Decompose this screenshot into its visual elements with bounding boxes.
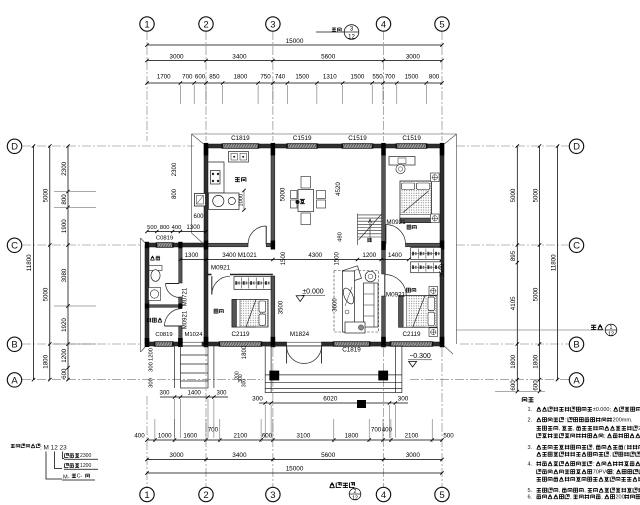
porch column left xyxy=(269,371,279,381)
eave corner diagonal left-mid xyxy=(192,233,207,246)
eave corner diagonal top-left xyxy=(192,134,207,146)
svg-text:600: 600 xyxy=(193,214,204,220)
svg-text:C1819: C1819 xyxy=(342,346,361,353)
extension stubs side steps and porch xyxy=(174,399,176,438)
svg-text:C2119: C2119 xyxy=(231,331,250,338)
window C1519 north dining R xyxy=(343,144,373,149)
side steps xyxy=(175,346,214,388)
grid line 5 xyxy=(441,31,443,141)
svg-text:4: 4 xyxy=(381,19,386,30)
rain pipe detail mark 1/12 xyxy=(456,329,604,331)
svg-text:M1824: M1824 xyxy=(290,331,310,338)
eave outline main house xyxy=(141,134,457,354)
svg-text:A: A xyxy=(573,375,580,386)
bedroom SW wardrobe xyxy=(234,277,271,290)
svg-text:1: 1 xyxy=(144,490,149,501)
dim col right 5000/5000/1800/600 xyxy=(539,146,541,392)
window C2119 south right xyxy=(391,342,432,347)
svg-text:1500: 1500 xyxy=(351,74,365,81)
svg-text:D: D xyxy=(11,142,18,153)
svg-text:3000: 3000 xyxy=(406,54,421,61)
grid bubble 4 bottom xyxy=(376,487,390,501)
grid line A xyxy=(22,379,263,381)
svg-text:C1519: C1519 xyxy=(293,135,312,142)
dim row top details xyxy=(147,82,442,84)
dim col left 11800 xyxy=(33,146,35,380)
svg-text:C: C xyxy=(11,241,18,252)
toilet xyxy=(149,266,162,271)
svg-text:4105: 4105 xyxy=(510,296,517,310)
grid bubble 5 bottom xyxy=(435,487,449,501)
svg-text:C0819: C0819 xyxy=(156,236,173,242)
wall corridor east x=180.4 xyxy=(179,245,182,283)
svg-text:2: 2 xyxy=(203,19,208,30)
wall annex partition y=306 xyxy=(147,305,180,308)
window C0819 annex north xyxy=(157,243,173,248)
svg-text:500: 500 xyxy=(443,433,454,440)
svg-text:400: 400 xyxy=(172,225,182,231)
svg-text:3080: 3080 xyxy=(61,268,68,282)
wall grid3 x=272.9 bedroom/living xyxy=(271,276,275,344)
stair label up xyxy=(367,238,372,242)
svg-text:C2119: C2119 xyxy=(402,331,421,338)
svg-text:12: 12 xyxy=(348,35,355,41)
sofa side table lamp xyxy=(365,271,376,282)
partition bedroom SW north y=274.5 xyxy=(206,274,212,276)
svg-text:1300: 1300 xyxy=(186,224,200,231)
grid bubble A left xyxy=(7,373,21,387)
bedroom NE desk xyxy=(389,157,415,166)
wall kitchen south y=245 xyxy=(206,243,248,247)
svg-text:11800: 11800 xyxy=(550,254,557,271)
porch outline and steps xyxy=(265,346,402,393)
svg-text:1: 1 xyxy=(610,325,613,331)
wall bedroom NE south y=245 xyxy=(384,243,386,247)
svg-text:700: 700 xyxy=(371,427,382,434)
svg-text:11800: 11800 xyxy=(26,254,33,271)
svg-text:C1519: C1519 xyxy=(348,135,367,142)
svg-text:5000: 5000 xyxy=(43,188,50,202)
door M0921 bedroom SE arc xyxy=(385,275,407,297)
svg-text:5000: 5000 xyxy=(43,287,50,301)
svg-text:3: 3 xyxy=(270,490,275,501)
kitchen west counter xyxy=(208,162,224,193)
svg-text:800: 800 xyxy=(61,194,68,205)
room label bedroom SE xyxy=(407,288,411,292)
window C1819 south xyxy=(334,342,369,347)
grid bubble C right xyxy=(569,238,583,252)
svg-text:300: 300 xyxy=(159,391,170,397)
svg-text:M0921: M0921 xyxy=(211,264,231,271)
wall grid4 x=383.5 upper xyxy=(382,146,386,245)
door M1824 threshold xyxy=(287,341,322,343)
kitchen sink counter xyxy=(209,193,240,210)
svg-text:15000: 15000 xyxy=(286,466,304,473)
svg-text:5: 5 xyxy=(439,490,444,501)
grid bubble 3 top xyxy=(266,17,280,31)
grid bubble B right xyxy=(569,337,583,351)
grid bubble 2 bottom xyxy=(199,487,213,501)
bedroom NE bed xyxy=(400,181,432,223)
grid bubble 4 top xyxy=(376,17,390,31)
svg-text:3000: 3000 xyxy=(169,452,184,459)
dim row bottom details xyxy=(147,439,442,441)
eave corner diagonal bottom-right xyxy=(442,344,453,354)
room label bedroom NE xyxy=(407,225,411,229)
grid bubble D right xyxy=(569,139,583,153)
svg-text:2100: 2100 xyxy=(234,433,248,440)
dining table xyxy=(298,190,314,212)
svg-text:1900: 1900 xyxy=(61,219,68,233)
dining chairs xyxy=(301,177,311,189)
svg-text:1500: 1500 xyxy=(281,251,287,265)
grid line 4 xyxy=(383,31,385,141)
svg-text:1800: 1800 xyxy=(345,433,359,440)
svg-text:1.: 1. xyxy=(528,407,533,413)
bedroom SE bed xyxy=(399,296,437,328)
grid line B xyxy=(22,343,140,345)
svg-text:300: 300 xyxy=(242,379,248,388)
svg-text:3400 M1021: 3400 M1021 xyxy=(222,252,257,259)
svg-text:400: 400 xyxy=(134,433,145,440)
svg-text:6.: 6. xyxy=(528,494,533,500)
svg-text:1500: 1500 xyxy=(295,74,309,81)
dim row bottom 15000 xyxy=(147,472,442,474)
svg-text:740: 740 xyxy=(275,74,286,81)
outdoor steps detail mark 2/12 xyxy=(330,482,335,487)
canopy detail mark 3/12 xyxy=(316,31,344,33)
svg-text:C-: C- xyxy=(77,473,83,479)
svg-text:1: 1 xyxy=(144,19,149,30)
svg-text:3.: 3. xyxy=(528,445,533,451)
dim row top 15000 xyxy=(147,44,442,46)
dim col left details xyxy=(67,146,69,380)
column below porch xyxy=(357,400,366,408)
kitchen stove counter xyxy=(229,152,249,163)
svg-text:1800: 1800 xyxy=(43,354,50,368)
svg-text:300: 300 xyxy=(252,396,263,403)
svg-text:C0819: C0819 xyxy=(155,332,172,338)
svg-text:1200: 1200 xyxy=(61,348,68,362)
chaise with figure xyxy=(343,271,355,332)
wall east x=442 xyxy=(440,146,444,344)
room label bathroom xyxy=(151,256,155,260)
svg-text:300: 300 xyxy=(148,362,154,372)
svg-text:800: 800 xyxy=(160,225,170,231)
room label kitchen xyxy=(235,177,240,182)
svg-text:±0.000: ±0.000 xyxy=(302,289,323,296)
svg-text:300: 300 xyxy=(216,391,227,397)
svg-text:800: 800 xyxy=(429,74,440,81)
svg-text:480: 480 xyxy=(338,232,344,242)
window C1519 north dining L xyxy=(287,144,317,149)
wall south B xyxy=(147,342,155,346)
svg-text:1000: 1000 xyxy=(239,194,245,207)
notes block xyxy=(522,398,527,402)
grid bubble 1 top xyxy=(140,17,154,31)
porch column right xyxy=(378,371,388,381)
svg-text:6020: 6020 xyxy=(323,396,338,403)
door M0921 bedroom SW arc xyxy=(212,276,230,294)
dim row top 3000/3400/5600/3000 xyxy=(147,60,442,62)
door M0921 bedroom NE arc xyxy=(386,225,406,245)
svg-text:1800: 1800 xyxy=(510,354,517,368)
svg-text:600: 600 xyxy=(195,74,206,81)
wash basin xyxy=(149,288,161,301)
svg-text:2300: 2300 xyxy=(61,161,68,175)
svg-text:850: 850 xyxy=(209,74,220,81)
svg-text:700: 700 xyxy=(208,427,219,434)
grid line 3 xyxy=(272,31,274,141)
svg-text:600: 600 xyxy=(510,380,517,391)
svg-text:B: B xyxy=(573,340,579,351)
grid bubble 1 bottom xyxy=(140,487,154,501)
grid bubble 5 top xyxy=(435,17,449,31)
grid bubble C left xyxy=(7,238,21,252)
svg-text:3: 3 xyxy=(270,19,275,30)
svg-text:700: 700 xyxy=(182,74,193,81)
svg-text:12: 12 xyxy=(608,332,614,338)
dim extension stubs bottom xyxy=(154,419,156,442)
kitchen flue xyxy=(195,194,206,207)
svg-text:1300: 1300 xyxy=(185,252,199,259)
room label dining xyxy=(296,200,300,204)
svg-text:1800: 1800 xyxy=(242,345,248,359)
svg-text:1200: 1200 xyxy=(362,252,376,259)
dim row bottom 3000/3400/5600/3000 xyxy=(147,459,442,461)
svg-text:1310: 1310 xyxy=(323,74,337,81)
window C0819 south annex xyxy=(155,342,173,347)
svg-text:2.: 2. xyxy=(528,417,533,423)
svg-text:5000: 5000 xyxy=(532,287,539,301)
svg-text:M0921: M0921 xyxy=(183,310,189,329)
svg-text:5600: 5600 xyxy=(321,54,336,61)
dim col left 5000/5000/1800 xyxy=(49,146,51,380)
grid line D xyxy=(22,145,194,147)
svg-text:200: 200 xyxy=(616,494,625,500)
structural columns xyxy=(204,143,208,156)
svg-text:4: 4 xyxy=(381,490,386,501)
svg-text:(: ( xyxy=(624,445,626,451)
eave outline annex xyxy=(140,238,142,352)
svg-text:1000: 1000 xyxy=(158,433,172,440)
svg-text:895: 895 xyxy=(510,250,517,261)
grid line 2 xyxy=(205,31,207,141)
door M0921 storage arc xyxy=(165,309,183,327)
svg-text:1200: 1200 xyxy=(148,348,154,361)
svg-text:3400: 3400 xyxy=(232,452,247,459)
svg-text:2300: 2300 xyxy=(80,453,91,459)
svg-text:1800: 1800 xyxy=(532,354,539,368)
grid line 1 xyxy=(22,31,570,487)
armchair top xyxy=(342,266,361,283)
svg-text:2100: 2100 xyxy=(405,433,419,440)
door M1021 kitchen arc xyxy=(248,226,266,244)
bedroom NE chair xyxy=(396,164,405,173)
svg-text:±0.000;: ±0.000; xyxy=(593,407,612,413)
svg-text:2: 2 xyxy=(203,490,208,501)
svg-text:C1819: C1819 xyxy=(231,135,250,142)
svg-text:3000: 3000 xyxy=(169,54,184,61)
wall annex west x=147 xyxy=(145,245,149,344)
svg-text:−0.300: −0.300 xyxy=(409,353,431,360)
svg-text:M0921: M0921 xyxy=(386,219,406,226)
dim row mid 1300/3400/4300/1200/1400 xyxy=(180,259,408,261)
grid bubble B left xyxy=(7,337,21,351)
svg-text:3000: 3000 xyxy=(406,452,421,459)
sofa group carpet xyxy=(334,271,379,333)
svg-text:1200: 1200 xyxy=(80,463,91,469)
svg-text:5: 5 xyxy=(439,19,444,30)
grid bubble 2 top xyxy=(199,17,213,31)
sofa long east xyxy=(364,283,379,327)
svg-text:M0921: M0921 xyxy=(386,292,406,299)
svg-text:B: B xyxy=(11,340,17,351)
kitchen 1000 dim xyxy=(243,191,245,211)
svg-text:12: 12 xyxy=(352,496,358,502)
window C1519 north bedroom xyxy=(397,144,427,149)
grid bubble A right xyxy=(569,373,583,387)
svg-text:: M 12 23: : M 12 23 xyxy=(40,445,67,452)
svg-text:5600: 5600 xyxy=(321,452,336,459)
svg-text:5000: 5000 xyxy=(510,188,517,202)
svg-text:3600: 3600 xyxy=(333,298,339,312)
svg-text:500: 500 xyxy=(147,225,157,231)
bedroom SE nightstand bottom xyxy=(429,328,438,337)
svg-text:4300: 4300 xyxy=(308,252,322,259)
wall annex north y=245 xyxy=(147,243,157,247)
svg-text:1600: 1600 xyxy=(183,433,197,440)
dim row annex top 500/800/400/1300 xyxy=(147,231,206,233)
svg-text:5000: 5000 xyxy=(532,188,539,202)
window C2119 south left xyxy=(220,342,261,347)
dim extension stubs top xyxy=(179,85,181,104)
door M1824 double arcs xyxy=(287,346,305,364)
svg-text:1400: 1400 xyxy=(388,252,402,259)
wall grid4 lower x=383.5 xyxy=(382,245,386,274)
svg-text:5000: 5000 xyxy=(280,187,287,201)
svg-text:600: 600 xyxy=(532,380,539,391)
door/window legend xyxy=(11,444,15,448)
svg-text:3100: 3100 xyxy=(297,433,311,440)
svg-text:M1024: M1024 xyxy=(184,332,203,338)
eave corner diagonal top-right xyxy=(442,134,457,146)
bedroom SE nightstand top xyxy=(429,287,438,296)
svg-text:300: 300 xyxy=(398,396,409,403)
svg-text:2: 2 xyxy=(354,489,357,495)
dim row porch 300/6020/300 xyxy=(259,402,408,404)
wall north D xyxy=(206,144,223,148)
svg-text:200mm.: 200mm. xyxy=(613,417,633,423)
kitchen appliance 4 dots xyxy=(211,171,221,185)
svg-text:3500: 3500 xyxy=(279,300,285,314)
room label storage xyxy=(147,318,152,322)
stairs xyxy=(358,214,382,246)
door M0721 bathroom arc xyxy=(166,284,180,298)
svg-text:1920: 1920 xyxy=(61,318,68,332)
svg-text:C1519: C1519 xyxy=(402,135,421,142)
wall west main x=206 xyxy=(204,146,208,245)
grid bubble D left xyxy=(7,139,21,153)
grid line C xyxy=(22,244,141,246)
svg-text:D: D xyxy=(573,142,580,153)
svg-text:1500: 1500 xyxy=(405,74,419,81)
door M1024 threshold xyxy=(182,341,202,343)
dim col right 5000/895/4105/1800/600 xyxy=(516,146,518,392)
svg-text:M-: M- xyxy=(63,475,70,481)
bedroom NE nightstand bottom xyxy=(431,214,440,223)
svg-text:4.: 4. xyxy=(528,461,533,467)
dim row side steps 300/1400/300 xyxy=(160,396,228,398)
svg-text:600: 600 xyxy=(61,368,68,379)
svg-text:300: 300 xyxy=(148,378,154,388)
svg-text:1500: 1500 xyxy=(335,251,341,265)
bedroom SE wardrobe row2 xyxy=(411,262,442,273)
svg-text:1800: 1800 xyxy=(234,74,248,81)
left extension stubs xyxy=(54,191,96,193)
svg-text:550: 550 xyxy=(372,74,383,81)
svg-text:750: 750 xyxy=(260,74,271,81)
bedroom SW bed xyxy=(232,300,268,328)
svg-text:5.: 5. xyxy=(528,488,533,494)
grid bubble 3 bottom xyxy=(266,487,280,501)
svg-text:A: A xyxy=(11,375,18,386)
room label bedroom SW xyxy=(214,309,218,313)
svg-text:15000: 15000 xyxy=(286,38,304,45)
svg-text:C: C xyxy=(573,241,580,252)
svg-text:700: 700 xyxy=(385,74,396,81)
coffee table bottom xyxy=(345,322,365,333)
svg-text:4520: 4520 xyxy=(335,182,342,196)
svg-text:800: 800 xyxy=(172,188,178,199)
svg-text:M0721: M0721 xyxy=(183,287,189,306)
svg-text:2300: 2300 xyxy=(172,162,178,176)
wall grid3 x=272.9 kitchen/dining xyxy=(271,146,275,245)
bedroom SE wardrobe row1 xyxy=(411,248,442,260)
dim col right 11800 xyxy=(557,146,559,380)
window C1819 north xyxy=(223,144,258,149)
bedroom NE nightstand top xyxy=(431,173,440,182)
svg-text:1700: 1700 xyxy=(157,74,171,81)
svg-text:3500: 3500 xyxy=(440,263,446,277)
svg-text:1400: 1400 xyxy=(188,391,202,397)
svg-text:3400: 3400 xyxy=(232,54,247,61)
